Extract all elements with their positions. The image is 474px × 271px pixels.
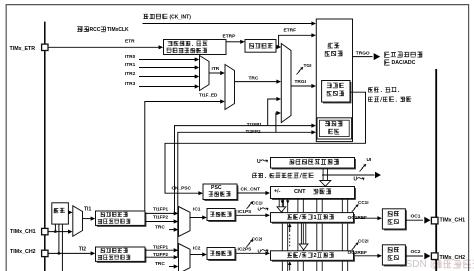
- wire CK_INT: [143, 21, 317, 25]
- svg-text:CC1I: CC1I: [252, 200, 262, 205]
- mux trigger source: [225, 65, 235, 110]
- label CC1I left: [247, 200, 269, 212]
- svg-text:DAC/ADC: DAC/ADC: [392, 60, 416, 66]
- svg-text:IC2: IC2: [193, 246, 201, 252]
- label CC2I left: [247, 236, 269, 254]
- wire CH1: [48, 230, 73, 234]
- label CC2I right: [352, 238, 369, 249]
- block CNT counter: [271, 187, 356, 200]
- svg-text:PSC: PSC: [211, 185, 222, 191]
- svg-text:RCC: RCC: [90, 27, 101, 33]
- wire TI1FP1: [145, 206, 178, 215]
- block output control 2: [382, 245, 406, 267]
- svg-text:TIMx_CH1: TIMx_CH1: [10, 229, 36, 235]
- svg-text:ITR0: ITR0: [125, 54, 136, 60]
- svg-text:TI2FP2: TI2FP2: [153, 252, 169, 257]
- wire OC2REF: [348, 250, 383, 258]
- svg-text:ITR1: ITR1: [125, 62, 136, 68]
- block IC1 prescaler: [207, 209, 236, 222]
- wire TI1FP1 to trigger: [175, 97, 317, 213]
- mux TI1 select: [73, 206, 83, 237]
- block PSC prescaler: [203, 184, 238, 201]
- svg-text:TI1: TI1: [84, 206, 91, 212]
- svg-text:TI2FP2: TI2FP2: [246, 129, 262, 134]
- svg-text:U: U: [257, 159, 261, 165]
- svg-text:ITR2: ITR2: [125, 71, 136, 77]
- block capture/compare 1 register: [271, 213, 355, 224]
- svg-text:ETRF: ETRF: [284, 27, 297, 33]
- wire TI2FP2: [145, 252, 178, 259]
- wire TI2: [48, 246, 95, 255]
- wire TI2FP2 to trigger: [178, 111, 316, 257]
- label CC1I right: [352, 200, 369, 212]
- label stop clear updown: [252, 173, 314, 178]
- svg-text:TI2FP1: TI2FP1: [153, 244, 169, 249]
- svg-text:OC1: OC1: [411, 213, 421, 219]
- wire ETRP: [223, 34, 245, 44]
- block IC2 prescaler: [207, 248, 236, 261]
- wire slave to CK_PSC: [165, 92, 366, 195]
- watermark CSDN: [398, 259, 474, 270]
- svg-text:ITR3: ITR3: [125, 81, 136, 87]
- wire TRC: [235, 75, 282, 83]
- wire XOR out: [68, 210, 73, 214]
- arrow CNT to CC1: [277, 199, 286, 212]
- svg-text:(CK_INT): (CK_INT): [170, 14, 192, 20]
- wire TRGI: [291, 79, 316, 88]
- pin TIMx_CH1 out: [431, 217, 465, 224]
- svg-text:TRC: TRC: [155, 224, 165, 230]
- svg-text:1: 1: [314, 215, 317, 221]
- svg-text:CC1I: CC1I: [358, 200, 368, 205]
- svg-text:ETRP: ETRP: [223, 34, 237, 40]
- svg-text:TIMx_CH1: TIMx_CH1: [440, 218, 466, 224]
- svg-text:+/-: +/-: [274, 189, 281, 195]
- label from RCC TIMxCLK: [77, 27, 129, 33]
- label CK_INT internal clock: [143, 14, 191, 20]
- mux TRGI select: [281, 44, 291, 123]
- svg-text:TI2: TI2: [79, 246, 86, 252]
- wire IC2: [190, 246, 207, 257]
- arrow ARR to CNT preload: [320, 168, 331, 186]
- svg-text:IC1: IC1: [193, 206, 201, 212]
- block polarity/edge-detect/prescaler: [164, 40, 227, 55]
- svg-text:UI: UI: [367, 157, 372, 163]
- block capture/compare 2 register: [271, 251, 355, 262]
- block auto-reload register: [271, 158, 356, 170]
- pin TIMx_CH2 in: [10, 249, 48, 257]
- svg-text:TRGI: TRGI: [295, 79, 307, 85]
- svg-text:TI1FP1: TI1FP1: [247, 122, 263, 127]
- wire OC2: [405, 249, 430, 259]
- svg-text:OC2: OC2: [411, 249, 421, 255]
- mux IC2 select: [179, 244, 191, 271]
- block input filter edge detector 2: [96, 247, 147, 263]
- block input filter edge detector 1: [96, 211, 147, 227]
- wire ITR: [209, 66, 225, 75]
- block input filter ETR: [245, 40, 276, 53]
- wire IC1: [190, 206, 207, 219]
- left boundary line: [44, 22, 46, 271]
- svg-text:TI1FP1: TI1FP1: [153, 206, 169, 211]
- wire TI1F_ED: [145, 93, 225, 211]
- wire ITR0: [125, 54, 199, 62]
- arrow up into CC2: [288, 261, 292, 270]
- wire TI1: [83, 206, 96, 220]
- wire CK_CNT: [237, 186, 270, 195]
- wire TRGO: [353, 50, 423, 66]
- svg-text:CC2I: CC2I: [252, 236, 262, 241]
- mux IC1 select: [179, 207, 191, 237]
- svg-text:TIMx_CH2: TIMx_CH2: [10, 249, 36, 255]
- block trigger controller: [316, 19, 352, 142]
- svg-text:ITR: ITR: [212, 66, 220, 72]
- svg-text:TIMx_ETR: TIMx_ETR: [10, 46, 36, 52]
- pin TIMx_ETR: [10, 44, 49, 52]
- svg-text:IC1PS: IC1PS: [238, 209, 253, 215]
- arrow CC1 to CC2: [299, 223, 308, 250]
- svg-text:U: U: [258, 207, 262, 213]
- svg-text:TI1FP2: TI1FP2: [153, 215, 169, 220]
- svg-text:TRC: TRC: [155, 261, 165, 267]
- svg-text:U: U: [354, 177, 358, 183]
- wire ETR: [48, 39, 163, 50]
- block slave mode controller: [322, 81, 352, 104]
- wire IC2PS: [235, 247, 270, 256]
- svg-text:TRGO: TRGO: [356, 50, 370, 56]
- svg-text:TRC: TRC: [249, 75, 259, 81]
- svg-text:IC2PS: IC2PS: [238, 247, 253, 253]
- pin TIMx_CH2 out: [431, 253, 465, 261]
- wire ITR3: [125, 81, 199, 89]
- svg-text:TGI: TGI: [304, 63, 313, 69]
- wire IC1PS: [235, 209, 270, 218]
- svg-text:TI1F_ED: TI1F_ED: [199, 93, 218, 98]
- wire TRC ch1: [155, 224, 178, 231]
- wire update event right: [322, 172, 381, 183]
- wire TI2FP1: [145, 244, 178, 252]
- wire OC1: [405, 213, 430, 223]
- svg-text:2: 2: [314, 253, 317, 259]
- svg-text:ETR: ETR: [125, 39, 135, 45]
- svg-text:TIMxCLK: TIMxCLK: [107, 27, 129, 33]
- pin TIMx_CH1 in: [10, 228, 48, 235]
- svg-text:CK_CNT: CK_CNT: [241, 186, 261, 192]
- wire ITR1: [125, 62, 199, 70]
- svg-text:CNT: CNT: [294, 189, 306, 195]
- svg-text:TIMx_CH2: TIMx_CH2: [440, 255, 466, 261]
- bus CNT outputs: [281, 199, 348, 271]
- mux ITR select: [200, 56, 210, 91]
- label UI: [360, 157, 372, 171]
- wire TRC ch2: [155, 261, 178, 268]
- svg-text:CC2I: CC2I: [358, 238, 368, 243]
- block encoder interface: [317, 118, 352, 139]
- right boundary line: [435, 69, 437, 271]
- wire XOR inputs: [55, 224, 62, 271]
- wire TI1FP2: [145, 215, 178, 224]
- block output control 1: [382, 209, 406, 231]
- arrow up into CC1: [288, 223, 292, 246]
- label U event ARR: [257, 159, 268, 165]
- wire ITR2: [125, 71, 199, 79]
- block XOR: [52, 203, 69, 224]
- wire ETRF: [276, 27, 316, 49]
- wire OC1REF: [348, 215, 383, 221]
- label TGI: [297, 63, 313, 74]
- label reset enable updown count: [368, 87, 411, 102]
- svg-text:OC2REF: OC2REF: [348, 250, 368, 256]
